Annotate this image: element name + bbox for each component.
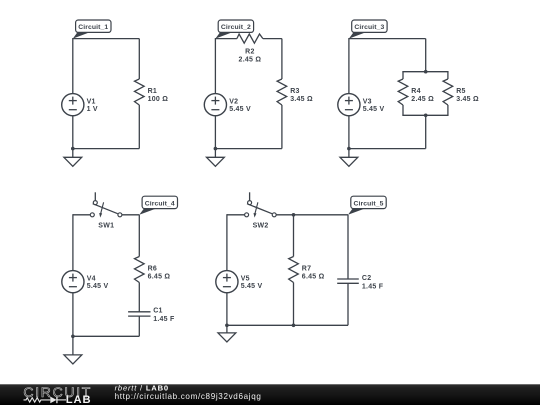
wire: middle branch upper (top to parallel node): [425, 39, 427, 72]
wire: SW2 throw to right branch: [276, 214, 348, 216]
wire: right branch lower (R3 to bottom): [281, 105, 283, 149]
capacitor C2 (1.45 F): [337, 275, 384, 290]
wire: top of Circuit_1: [73, 38, 140, 40]
svg-text:V5: V5: [241, 276, 250, 283]
voltage source V3 (5.45 V): [338, 94, 385, 116]
svg-text:V2: V2: [229, 99, 238, 106]
wire: parallel top bar: [402, 71, 448, 73]
svg-text:6.45 Ω: 6.45 Ω: [148, 273, 171, 280]
voltage source V2 (5.45 V): [204, 94, 251, 116]
svg-text:Circuit_5: Circuit_5: [354, 200, 384, 207]
wire: right branch lower (R1 to bottom): [138, 105, 140, 149]
wire: top of Circuit_3: [349, 38, 426, 40]
ground: [64, 336, 82, 364]
ground: [218, 325, 236, 342]
wire: bottom of Circuit_5: [227, 324, 348, 326]
switch SW2 (SPDT): [245, 192, 277, 229]
resistor R1 (100 &#937;): [135, 79, 169, 105]
svg-text:3.45 Ω: 3.45 Ω: [456, 96, 479, 103]
wire: R5 top lead: [447, 72, 449, 79]
node label Circuit_5: [348, 196, 386, 215]
svg-text:R5: R5: [456, 88, 465, 95]
node label Circuit_2: [215, 20, 253, 39]
wire: top-right of Circuit_2 (R2 to right branch): [263, 38, 282, 40]
wire: middle branch upper (to R7): [293, 215, 295, 257]
junction dot at (72.8,148.6): [71, 147, 75, 151]
wire: R5 bottom lead: [447, 105, 449, 115]
switch SW1 (SPDT): [90, 192, 122, 229]
wire: bottom of Circuit_4: [73, 335, 139, 337]
wire: left branch upper (to V1): [72, 38, 74, 94]
wire: right branch upper (to R6): [138, 215, 140, 257]
junction dot at (425.7,71.7): [424, 70, 428, 74]
svg-text:2.45 Ω: 2.45 Ω: [239, 56, 262, 63]
resistor R6 (6.45 &#937;): [135, 257, 171, 283]
wire: left branch lower (V1 to bottom): [72, 115, 74, 148]
ground: [340, 149, 358, 167]
wire: parallel bottom bar: [402, 114, 448, 116]
wire: right branch upper (to R3): [281, 39, 283, 79]
junction dot at (226.9,325.3): [225, 324, 229, 328]
resistor R7 (6.45 &#937;): [289, 257, 325, 283]
wire: right branch middle (R6 to C1): [138, 283, 140, 312]
junction dot at (425.7,115.3): [424, 114, 428, 118]
wire: bottom of Circuit_2: [215, 148, 282, 150]
resistor R2 (2.45 &#937;): [237, 34, 263, 63]
voltage source V5 (5.45 V): [216, 271, 263, 293]
wire: left branch lower (V5 to bottom): [226, 292, 228, 325]
svg-text:R7: R7: [302, 265, 311, 272]
svg-text:1.45 F: 1.45 F: [153, 316, 175, 323]
wire: SW1 throw to right branch: [122, 214, 139, 216]
footer bar: [0, 384, 540, 405]
ground: [64, 149, 82, 167]
svg-text:C1: C1: [153, 308, 162, 315]
CircuitLab logo: [23, 384, 92, 405]
wire: bottom of Circuit_1: [73, 148, 140, 150]
wire: left branch lower (V2 to bottom): [214, 115, 216, 148]
svg-text:Circuit_2: Circuit_2: [221, 24, 251, 31]
node label Circuit_3: [349, 20, 387, 39]
svg-text:3.45 Ω: 3.45 Ω: [290, 96, 313, 103]
svg-text:R1: R1: [148, 88, 157, 95]
svg-text:2.45 Ω: 2.45 Ω: [411, 96, 434, 103]
wire: R4 top lead: [402, 72, 404, 79]
wire: top-left of Circuit_2 (to R2): [215, 38, 237, 40]
svg-text:SW1: SW1: [98, 223, 114, 230]
wire: left branch lower (V3 to bottom): [348, 115, 350, 148]
junction dot at (293.5,325.3): [292, 324, 296, 328]
resistor R5 (3.45 &#937;): [443, 79, 479, 105]
svg-text:R4: R4: [411, 88, 420, 95]
svg-text:Circuit_1: Circuit_1: [78, 24, 108, 31]
svg-text:5.45 V: 5.45 V: [87, 283, 109, 290]
wire: R4 bottom lead: [402, 105, 404, 115]
wire: bottom of Circuit_3: [349, 148, 426, 150]
svg-text:R2: R2: [245, 48, 254, 55]
svg-text:5.45 V: 5.45 V: [229, 106, 251, 113]
svg-text:5.45 V: 5.45 V: [241, 283, 263, 290]
wire: middle branch lower (R7 to bottom): [293, 283, 295, 326]
svg-text:LAB: LAB: [66, 394, 92, 405]
node label Circuit_1: [73, 20, 111, 39]
resistor R3 (3.45 &#937;): [277, 79, 313, 105]
svg-text:Circuit_4: Circuit_4: [145, 200, 175, 207]
wire: top-left of Circuit_5 (to SW2 pole): [227, 214, 245, 216]
wire: right branch upper (to C2): [347, 215, 349, 279]
svg-text:R6: R6: [148, 265, 157, 272]
wire: top-left of Circuit_4 (to SW1 pole): [73, 214, 90, 216]
svg-text:C2: C2: [362, 275, 371, 282]
wire: right branch lower (C2 to bottom): [347, 283, 349, 325]
wire: right branch lower (C1 to bottom): [138, 316, 140, 336]
junction dot at (72.9,336.3): [71, 335, 75, 339]
junction dot at (348.9,148.6): [347, 147, 351, 151]
svg-text:R3: R3: [290, 88, 299, 95]
wire: left branch upper (to V2): [214, 38, 216, 94]
wire: left branch upper (to V3): [348, 38, 350, 94]
svg-text:http://circuitlab.com/c89j32vd: http://circuitlab.com/c89j32vd6ajqg: [115, 392, 262, 401]
svg-text:Circuit_3: Circuit_3: [354, 24, 384, 31]
capacitor C1 (1.45 F): [128, 308, 175, 323]
junction dot at (215.4,148.6): [214, 147, 218, 151]
ground: [207, 149, 225, 167]
resistor R4 (2.45 &#937;): [398, 79, 434, 105]
svg-text:SW2: SW2: [253, 223, 269, 230]
svg-text:6.45 Ω: 6.45 Ω: [302, 273, 325, 280]
wire: left branch lower (V4 to bottom): [72, 292, 74, 336]
wire: middle branch lower (parallel node to bottom): [425, 115, 427, 148]
svg-text:100 Ω: 100 Ω: [148, 96, 169, 103]
node label Circuit_4: [139, 196, 177, 215]
voltage source V4 (5.45 V): [62, 271, 109, 293]
wire: left branch upper (to V5): [226, 214, 228, 271]
svg-text:V3: V3: [363, 99, 372, 106]
svg-text:5.45 V: 5.45 V: [363, 106, 385, 113]
svg-text:1.45 F: 1.45 F: [362, 283, 384, 290]
wire: left branch upper (to V4): [72, 214, 74, 271]
wire: right branch upper (to R1): [138, 39, 140, 79]
svg-text:1 V: 1 V: [87, 106, 98, 113]
junction dot at (293.5,214.8): [292, 213, 296, 217]
voltage source V1 (1 V): [62, 94, 98, 116]
svg-text:V1: V1: [87, 99, 96, 106]
svg-text:V4: V4: [87, 276, 96, 283]
